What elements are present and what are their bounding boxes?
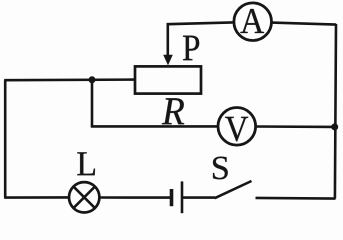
label P: [183, 36, 199, 61]
junction node (right rail / voltmeter): [331, 123, 338, 130]
junction node (left, to voltmeter branch): [89, 76, 96, 83]
wire: top-left horizontal from left rail to rheostat: [4, 78, 134, 81]
voltmeter V: [218, 108, 256, 146]
wire: lamp to battery: [100, 196, 172, 199]
wire: voltmeter branch vertical from junction: [91, 80, 94, 127]
wire: voltmeter right to right rail: [256, 125, 336, 128]
label S: [213, 157, 228, 180]
rheostat R (resistor box): [135, 66, 201, 93]
slider arrow (pointer P): [163, 55, 173, 66]
wire: bottom-left from rail to lamp: [4, 196, 69, 199]
wire: slider arm from ammeter left, across and down: [168, 22, 233, 56]
wire: right rail: [335, 24, 336, 199]
wire: voltmeter branch horizontal to voltmeter: [91, 125, 218, 128]
wire: left rail: [4, 80, 7, 197]
battery cell: [172, 181, 183, 213]
wire: ammeter right to top-right corner: [272, 23, 337, 25]
wire: switch contact to right rail: [256, 197, 336, 200]
ammeter A: [234, 3, 272, 41]
wire: battery to switch: [182, 196, 215, 199]
label R: [162, 98, 184, 124]
label L: [77, 152, 95, 175]
lamp L: [69, 182, 99, 212]
switch S (open blade): [215, 181, 252, 198]
